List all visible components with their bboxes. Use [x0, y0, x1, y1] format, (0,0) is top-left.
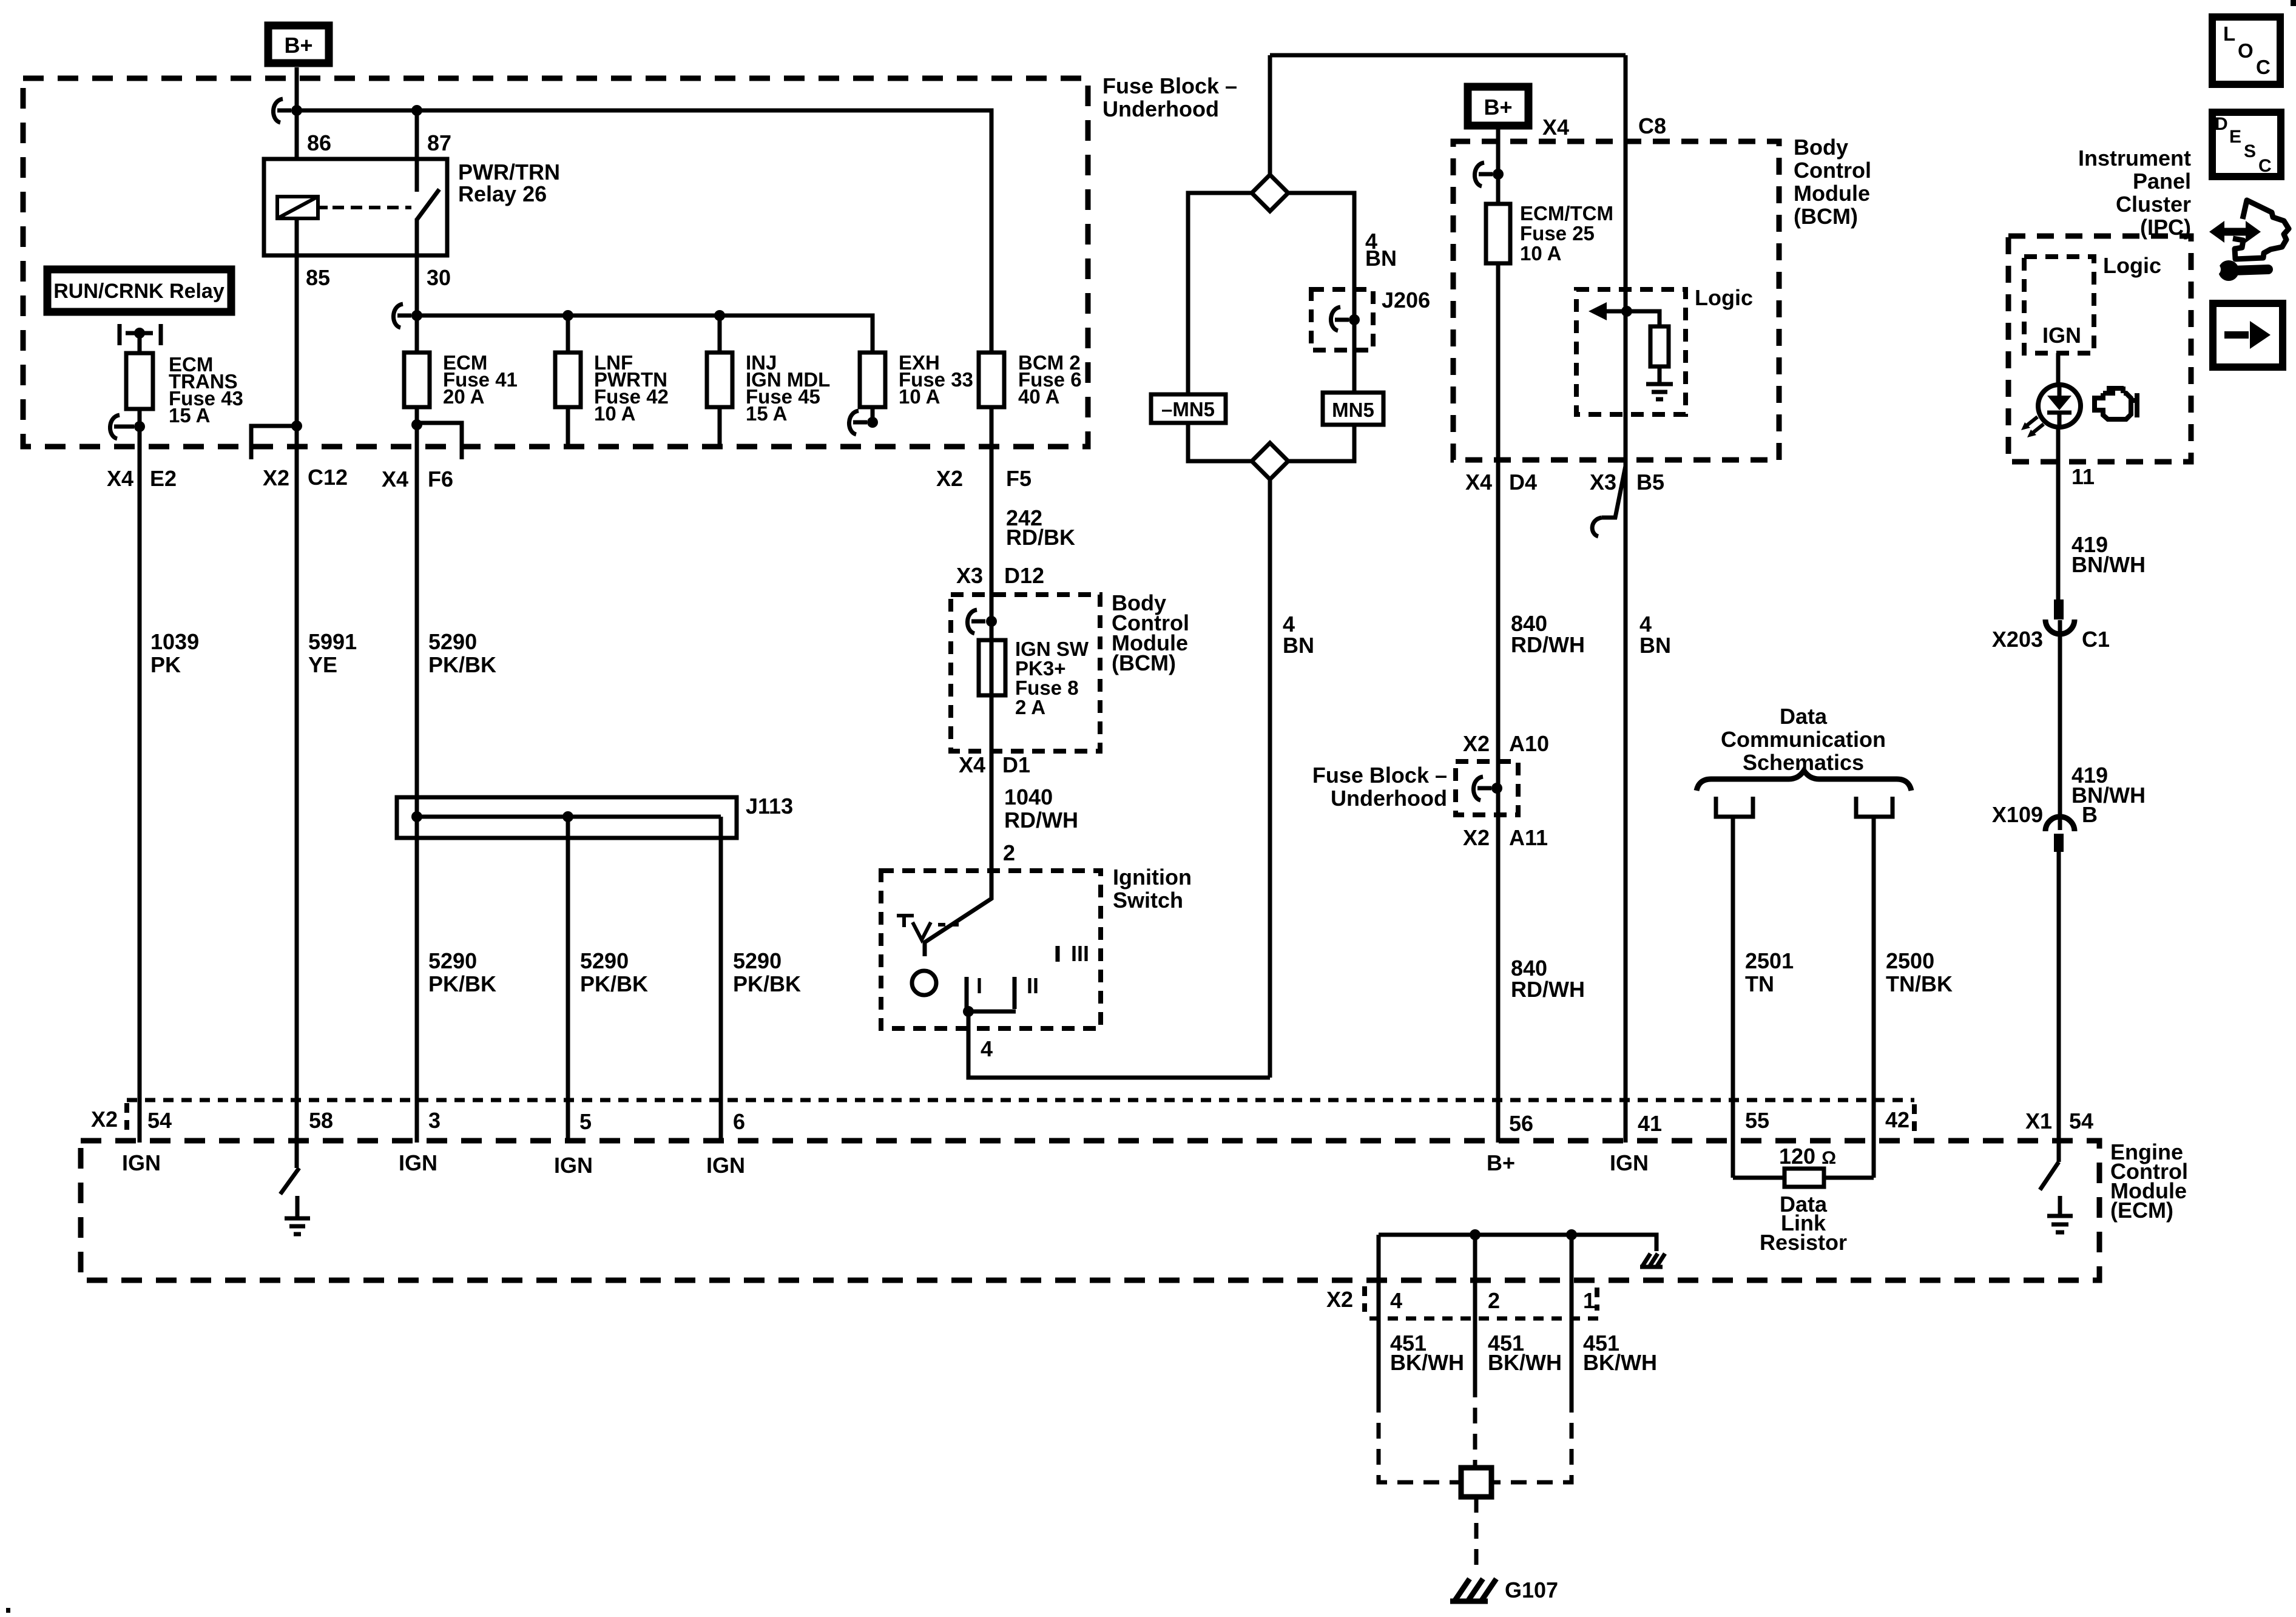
indicator LED (check engine lamp) — [2038, 385, 2081, 427]
wire resistor to ground — [1658, 366, 1662, 384]
wire IGN to indicator — [2056, 353, 2061, 387]
svg-text:J206: J206 — [1382, 288, 1430, 312]
wire top bus — [1270, 53, 1626, 58]
wire fuse 41 output down to ECM pin 3 — [415, 407, 419, 1143]
connector label X2 C12 — [263, 465, 348, 490]
svg-text:BN: BN — [1365, 246, 1397, 271]
svg-text:2 A: 2 A — [1015, 696, 1045, 718]
svg-text:B5: B5 — [1636, 470, 1664, 495]
svg-text:Fuse Block –: Fuse Block – — [1102, 73, 1237, 98]
svg-text:10 A: 10 A — [1520, 242, 1561, 265]
svg-text:X2: X2 — [91, 1107, 118, 1132]
wrench icon — [2209, 260, 2268, 281]
node ground bus tap 1 — [1566, 1229, 1577, 1240]
wire label 451 BK/WH (pin 4) — [1390, 1331, 1464, 1375]
svg-text:55: 55 — [1745, 1108, 1769, 1133]
connector label X2 A10 — [1463, 731, 1549, 756]
wire MN5 to diamond bottom — [1288, 425, 1354, 461]
connector label X2 (bottom) — [1326, 1286, 1365, 1312]
resistor (BCM pull-down) — [1650, 326, 1669, 366]
wire B+ down to bus and relay coil 86 — [295, 67, 299, 159]
svg-text:C12: C12 — [308, 465, 348, 490]
svg-text:Relay 26: Relay 26 — [458, 181, 547, 206]
connector label X1 54 — [2025, 1109, 2093, 1133]
wire label 242 RD/BK — [1006, 505, 1075, 550]
connector label X4 D1 — [959, 752, 1030, 777]
node F6 junction — [411, 419, 422, 430]
ground (ECM pin 58) — [285, 1196, 310, 1234]
svg-text:PK/BK: PK/BK — [580, 971, 648, 996]
brace — [1697, 771, 1911, 791]
svg-text:X4: X4 — [382, 467, 408, 491]
node C12 junction — [291, 420, 302, 431]
svg-text:5290: 5290 — [428, 948, 477, 973]
relay block label RUN/CRNK Relay — [47, 269, 231, 312]
clip hook at A10/A11 — [1473, 777, 1491, 800]
svg-text:C1: C1 — [2082, 627, 2110, 652]
svg-text:PK/BK: PK/BK — [733, 971, 801, 996]
svg-text:X3: X3 — [956, 563, 983, 588]
svg-text:20 A: 20 A — [443, 385, 484, 408]
in-line connector X109 B — [1992, 802, 2098, 852]
node ground bus tap 2 — [1470, 1229, 1481, 1240]
wire loop left branch — [1188, 193, 1252, 394]
fuse LNF PWRTN Fuse 42 — [555, 353, 581, 407]
svg-text:–MN5: –MN5 — [1161, 398, 1215, 420]
clip hook at B+ junction — [273, 99, 291, 123]
label Engine Control Module (ECM) — [2110, 1139, 2188, 1223]
fuse ECM/TCM Fuse 25 — [1486, 204, 1510, 263]
svg-text:Fuse Block –: Fuse Block – — [1312, 763, 1447, 788]
wire relay 30 down to fuse bus — [415, 218, 419, 353]
label Body Control Module (BCM) — [1112, 590, 1189, 675]
label Data Link Resistor — [1760, 1192, 1847, 1255]
svg-text:5: 5 — [579, 1109, 592, 1134]
splice J206 dashed box — [1311, 289, 1373, 350]
svg-text:Control: Control — [1794, 158, 1871, 183]
svg-text:58: 58 — [309, 1108, 333, 1133]
svg-text:1040: 1040 — [1004, 785, 1053, 809]
svg-text:11: 11 — [2071, 464, 2095, 489]
svg-text:Underhood: Underhood — [1102, 96, 1219, 121]
ECM internal switch at pin 54 right — [2040, 1162, 2059, 1190]
svg-text:PK: PK — [150, 652, 181, 677]
svg-text:O: O — [2238, 39, 2254, 62]
wire label 1039 PK — [150, 629, 199, 677]
svg-text:6: 6 — [733, 1109, 745, 1134]
svg-text:Logic: Logic — [1695, 285, 1753, 310]
wire fuse 43 down to ECM pin 54 — [138, 409, 142, 1143]
page mark bottom left — [6, 1608, 10, 1613]
DESC navigation box — [2212, 112, 2281, 177]
ignition contact III tick — [1058, 941, 1089, 966]
ECM connector face dotted line — [127, 1098, 1914, 1102]
svg-text:Fuse 25: Fuse 25 — [1520, 222, 1595, 245]
svg-text:L: L — [2223, 22, 2235, 45]
svg-text:X4: X4 — [1542, 115, 1569, 140]
svg-text:X2: X2 — [1463, 731, 1490, 756]
fuse 43 top clip — [120, 324, 161, 345]
connector MN5 box — [1323, 393, 1383, 425]
wire label 419 BN/WH (middle) — [2071, 763, 2146, 808]
connector label X2 F5 — [936, 466, 1032, 491]
ECM bottom connector dotted line — [1369, 1317, 1601, 1321]
svg-text:J113: J113 — [746, 794, 793, 819]
connector label X2 (ECM top row) — [91, 1103, 127, 1132]
svg-text:2500: 2500 — [1886, 948, 1934, 973]
node diamond top (splice) — [1252, 175, 1288, 211]
connector label X4 C8 — [1542, 113, 1666, 140]
fuse block pass-through dashed box — [1456, 761, 1518, 815]
logic input arrow — [1589, 302, 1627, 320]
svg-text:C8: C8 — [1638, 113, 1666, 138]
svg-text:Cluster: Cluster — [2116, 192, 2191, 217]
svg-text:B+: B+ — [1487, 1150, 1515, 1175]
clip hook at fuse 33 output — [849, 411, 867, 434]
fuse BCM 2 Fuse 6 — [979, 353, 1004, 407]
svg-text:F5: F5 — [1006, 466, 1032, 491]
svg-text:(BCM): (BCM) — [1794, 204, 1858, 229]
svg-text:85: 85 — [306, 265, 330, 290]
node LNF fuse tap — [562, 310, 573, 321]
label ECM TRANS Fuse 43 15 A — [169, 353, 243, 427]
svg-text:Ignition: Ignition — [1113, 865, 1192, 890]
node J206 — [1349, 314, 1360, 325]
node logic tap — [1621, 306, 1632, 317]
label ECM Fuse 41 20 A — [443, 351, 518, 408]
svg-text:TN/BK: TN/BK — [1886, 971, 1953, 996]
svg-text:10 A: 10 A — [899, 385, 940, 408]
svg-text:BK/WH: BK/WH — [1488, 1350, 1562, 1375]
svg-text:A11: A11 — [1509, 825, 1548, 850]
svg-text:X109: X109 — [1992, 802, 2043, 827]
data link resistor bus right — [1824, 1176, 1874, 1180]
clip hook at fuse 25 feed — [1474, 163, 1493, 186]
label Instrument Panel Cluster (IPC) — [2078, 146, 2191, 240]
wire relay coil 85 down to ECM pin 58 — [295, 218, 299, 1168]
svg-text:5290: 5290 — [580, 948, 629, 973]
svg-text:II: II — [1027, 973, 1039, 998]
svg-text:X4: X4 — [1465, 470, 1492, 495]
svg-text:BN/WH: BN/WH — [2071, 552, 2146, 577]
svg-text:Switch: Switch — [1113, 888, 1183, 913]
wire ground pin 2 — [1473, 1235, 1477, 1382]
svg-text:5290: 5290 — [428, 629, 477, 654]
label LNF PWRTN Fuse 42 10 A — [594, 351, 669, 425]
svg-text:D12: D12 — [1004, 563, 1044, 588]
svg-text:RD/BK: RD/BK — [1006, 525, 1075, 550]
wire label 2500 TN/BK — [1886, 948, 1953, 996]
ignition switch fixed contact mark — [897, 916, 961, 940]
svg-text:BN: BN — [1639, 633, 1671, 658]
relay coil — [277, 197, 328, 218]
ground G107 — [1450, 1578, 1558, 1602]
svg-text:RD/WH: RD/WH — [1511, 632, 1585, 657]
clip hook at J206 — [1331, 307, 1349, 331]
svg-text:PK/BK: PK/BK — [428, 652, 496, 677]
svg-text:F6: F6 — [428, 467, 453, 491]
wire J113 internal bus — [417, 815, 721, 819]
svg-text:Logic: Logic — [2103, 253, 2161, 278]
wire fuse 33 stub — [871, 407, 875, 422]
dashed wire splice to ground — [1474, 1497, 1479, 1574]
svg-text:2501: 2501 — [1745, 948, 1794, 973]
svg-text:IGN: IGN — [2042, 323, 2081, 348]
label Ignition Switch — [1113, 865, 1192, 913]
data link resistor bus left — [1733, 1176, 1784, 1180]
Logic dashed box (BCM) — [1576, 289, 1686, 414]
svg-text:YE: YE — [308, 652, 337, 677]
label EXH Fuse 33 10 A — [899, 351, 973, 408]
wire label 5290 PK/BK (pin 6) — [733, 948, 801, 996]
svg-text:MN5: MN5 — [1332, 399, 1374, 421]
label Fuse Block - Underhood — [1102, 73, 1237, 121]
double arrow icon — [2209, 221, 2261, 243]
wire label 2501 TN — [1745, 948, 1794, 996]
wire label 5290 PK/BK (pin 3) — [428, 948, 496, 996]
svg-text:IGN: IGN — [1610, 1150, 1649, 1175]
wire C8 down through BCM to ECM pin 41 — [1624, 55, 1628, 1143]
svg-text:TN: TN — [1745, 971, 1774, 996]
fuse INJ IGN MDL Fuse 45 — [707, 353, 732, 407]
svg-text:2: 2 — [1488, 1288, 1500, 1313]
Ignition Switch dashed box — [881, 871, 1101, 1028]
svg-text:(ECM): (ECM) — [2110, 1198, 2173, 1223]
wire label 5290 PK/BK (pin 5) — [580, 948, 648, 996]
svg-text:RUN/CRNK Relay: RUN/CRNK Relay — [53, 280, 225, 303]
ignition switch OFF position circle — [912, 971, 936, 995]
Instrument Panel Cluster dashed box — [2008, 236, 2191, 462]
wire label 4 BN (B5 run) — [1639, 612, 1671, 658]
wire ground pin 1 — [1570, 1235, 1574, 1397]
svg-text:41: 41 — [1638, 1111, 1662, 1136]
svg-text:Body: Body — [1794, 135, 1848, 160]
svg-text:C: C — [2256, 56, 2271, 78]
svg-text:BN: BN — [1283, 633, 1314, 658]
connector label X4 F6 — [382, 467, 453, 491]
wire label 451 BK/WH (pin 2) — [1488, 1331, 1562, 1375]
svg-text:5290: 5290 — [733, 948, 782, 973]
node fuse 43 output — [134, 421, 145, 432]
svg-text:4: 4 — [1390, 1288, 1402, 1313]
node fuse 33 output — [867, 417, 878, 428]
ignition contact post II — [1015, 973, 1039, 1009]
wire J113 tap to ECM pin 5 — [566, 817, 570, 1143]
relay switch (pin 87 to 30) — [417, 159, 439, 220]
svg-text:Panel: Panel — [2133, 169, 2191, 194]
node branch to relay pin 87 — [411, 105, 422, 116]
label ECM/TCM Fuse 25 10 A — [1520, 202, 1613, 265]
svg-text:D: D — [2215, 114, 2228, 134]
svg-text:X3: X3 — [1590, 470, 1616, 495]
fuse IGN SW PK3+ Fuse 8 — [979, 640, 1005, 695]
dashed wire to splice (pin 4) — [1379, 1397, 1459, 1482]
ECM internal ground bus — [1379, 1235, 1656, 1251]
svg-text:X2: X2 — [263, 465, 289, 490]
label BCM 2 Fuse 6 40 A — [1018, 351, 1082, 408]
ECM internal switch at pin 58 — [280, 1168, 299, 1194]
dashed wire to splice (pin 1) — [1494, 1397, 1572, 1482]
Fuse Block - Underhood dashed box — [23, 78, 1088, 447]
node fuse 8 feed — [986, 616, 997, 627]
svg-text:1: 1 — [1583, 1288, 1595, 1313]
node fuse bus junction — [411, 310, 422, 321]
svg-text:42: 42 — [1885, 1107, 1909, 1132]
wire 2500 TN/BK down to ECM pin 42 — [1872, 817, 1876, 1178]
wire fuse 25 down to ECM pin 56 — [1496, 263, 1501, 1143]
chassis ground (ECM internal) — [1640, 1254, 1665, 1267]
clip hook at fuse 8 feed — [967, 610, 985, 633]
svg-text:E: E — [2229, 127, 2241, 147]
wire branch down to relay switch pin 87 — [415, 110, 419, 159]
label Data Communication Schematics — [1721, 704, 1886, 775]
svg-text:X4: X4 — [107, 466, 133, 491]
wire ignition pin 4 down and right — [968, 1011, 1270, 1078]
svg-text:B+: B+ — [1484, 95, 1512, 120]
connector label X4 D4 — [1465, 470, 1537, 495]
fuse ECM TRANS Fuse 43 — [126, 353, 153, 409]
arrow navigation box — [2213, 303, 2283, 367]
wire label 840 RD/WH (upper) — [1511, 611, 1585, 657]
svg-text:X2: X2 — [936, 466, 963, 491]
wire IPC pin 11 down to X203 — [2056, 462, 2061, 599]
node fuse 25 feed — [1493, 169, 1504, 180]
staple loop at F6 — [417, 423, 462, 459]
connector label X4 E2 — [107, 466, 177, 491]
clip hook at fuse bus junction — [393, 304, 411, 328]
wire X203 to X109 — [2058, 620, 2062, 830]
wire fuse 45 stub — [718, 407, 722, 447]
svg-text:15 A: 15 A — [169, 404, 210, 427]
svg-text:B+: B+ — [284, 33, 312, 58]
clip hook below fuse 43 — [110, 415, 134, 439]
Body Control Module dashed box (top) — [1453, 141, 1779, 460]
svg-text:120 Ω: 120 Ω — [1779, 1144, 1836, 1169]
wire label 4 BN (loop) — [1365, 229, 1397, 271]
ignition switch blade wire — [925, 407, 991, 956]
svg-text:1039: 1039 — [150, 629, 199, 654]
wire top bus to diamond — [1268, 55, 1272, 175]
Body Control Module dashed box (ign sw fuse) — [951, 595, 1100, 751]
wire B+ to fuse 25 — [1496, 126, 1501, 204]
wire label 419 BN/WH (upper) — [2071, 532, 2146, 577]
resistor 120 ohm (data link) — [1784, 1169, 1824, 1187]
label INJ IGN MDL Fuse 45 15 A — [746, 351, 830, 425]
svg-text:2: 2 — [1003, 840, 1015, 865]
svg-text:Underhood: Underhood — [1331, 786, 1447, 811]
label IGN SW PK3+ Fuse 8 2 A — [1015, 638, 1089, 718]
svg-text:56: 56 — [1509, 1111, 1533, 1136]
svg-text:PWR/TRN: PWR/TRN — [458, 160, 560, 184]
svg-text:S: S — [2244, 141, 2256, 161]
wire label 5290 PK/BK (fuse 41 feed) — [428, 629, 496, 677]
in-line connector X203 C1 — [1992, 599, 2110, 652]
svg-text:E2: E2 — [150, 466, 177, 491]
Engine Control Module dashed box — [81, 1141, 2099, 1280]
svg-text:X2: X2 — [1326, 1287, 1353, 1312]
LOC navigation box — [2212, 17, 2280, 84]
svg-text:10 A: 10 A — [594, 402, 635, 425]
svg-text:C: C — [2258, 156, 2272, 176]
wire diamond bottom down (4 BN) — [1268, 479, 1272, 1078]
svg-text:Resistor: Resistor — [1760, 1230, 1847, 1255]
svg-text:5991: 5991 — [308, 629, 357, 654]
svg-text:D4: D4 — [1509, 470, 1537, 495]
svg-text:A10: A10 — [1509, 731, 1549, 756]
power symbol B+ (battery feed, fuse block underhood) — [268, 25, 329, 63]
splice J113 box — [397, 797, 737, 838]
wire loop right branch — [1288, 193, 1354, 393]
connector half (2500 TN/BK to data link) — [1856, 797, 1893, 817]
relay PWR/TRN Relay 26 box — [264, 159, 447, 255]
svg-text:40 A: 40 A — [1018, 385, 1059, 408]
svg-text:III: III — [1071, 941, 1089, 966]
svg-text:G107: G107 — [1505, 1578, 1558, 1602]
label Fuse Block - Underhood (small) — [1312, 763, 1447, 811]
wire tap to fuse 45 — [718, 316, 722, 353]
pin label 1 (bottom) — [1583, 1288, 1597, 1313]
node diamond bottom (splice) — [1252, 443, 1288, 479]
wire fuse feed bus — [417, 316, 873, 353]
wire 2501 TN down to ECM pin 55 — [1731, 817, 1735, 1178]
svg-text:X2: X2 — [1463, 825, 1490, 850]
wire label 5991 YE — [308, 629, 357, 677]
wire clip to fuse 43 — [138, 333, 142, 353]
label Body Control Module (BCM) top — [1794, 135, 1871, 229]
wire X109 down to ECM pin 54 — [2057, 852, 2061, 1162]
ground (ECM right) — [2047, 1196, 2073, 1232]
wire J113 bus corner down to ECM pin 6 — [719, 817, 723, 1143]
wire indicator to pin 11 — [2056, 427, 2061, 462]
svg-text:IGN: IGN — [706, 1153, 745, 1178]
svg-text:Data: Data — [1780, 704, 1828, 729]
connector label X3 B5 — [1590, 470, 1664, 495]
svg-text:15 A: 15 A — [746, 402, 787, 425]
svg-text:87: 87 — [427, 130, 451, 155]
connector break hook at B5 — [1592, 466, 1626, 536]
svg-text:B: B — [2082, 802, 2098, 827]
svg-text:ECM/TCM: ECM/TCM — [1520, 202, 1613, 224]
connector -MN5 box — [1151, 394, 1226, 423]
staple loop at C12 — [251, 426, 297, 459]
ignition output bus — [967, 1010, 1016, 1014]
svg-text:30: 30 — [427, 265, 451, 290]
connector tick (X1 boundary) — [1912, 1104, 1917, 1137]
svg-text:Module: Module — [1794, 181, 1870, 206]
svg-text:D1: D1 — [1002, 752, 1030, 777]
logic dashed box (IPC) — [2024, 257, 2094, 353]
ground (BCM logic) — [1646, 384, 1673, 399]
svg-text:X4: X4 — [959, 752, 985, 777]
ignition contact post I — [967, 973, 982, 1009]
node INJ fuse tap — [714, 310, 725, 321]
svg-text:54: 54 — [147, 1108, 172, 1133]
wire ground pin 4 — [1377, 1235, 1381, 1397]
svg-text:(BCM): (BCM) — [1112, 650, 1176, 675]
wire tap to fuse 42 — [566, 316, 570, 353]
node A10/A11 — [1491, 783, 1502, 794]
relay coil to switch dashed link — [333, 206, 411, 209]
svg-text:3: 3 — [428, 1108, 441, 1133]
dashed wire to splice (pin 2) — [1473, 1382, 1477, 1465]
engine icon — [2095, 387, 2137, 419]
svg-text:BK/WH: BK/WH — [1583, 1350, 1657, 1375]
svg-text:IGN: IGN — [554, 1153, 593, 1178]
wire label 451 BK/WH (pin 1) — [1583, 1331, 1657, 1375]
node ignition output — [963, 1006, 974, 1017]
svg-text:Instrument: Instrument — [2078, 146, 2191, 170]
svg-text:X1: X1 — [2025, 1109, 2052, 1133]
